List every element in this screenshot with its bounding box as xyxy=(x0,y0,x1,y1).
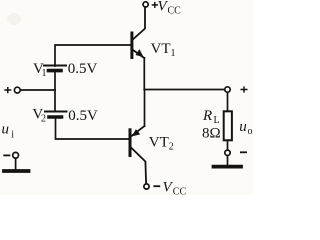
svg-text:V2: V2 xyxy=(32,107,46,125)
svg-text:u: u xyxy=(2,122,10,138)
output plus sign xyxy=(241,86,248,92)
transistor VT2 collector lead xyxy=(131,148,146,184)
svg-text:VT2: VT2 xyxy=(149,135,174,153)
terminal circle output plus xyxy=(225,87,230,92)
wire input minus terminal to ground xyxy=(15,158,17,169)
resistor RL body xyxy=(224,111,232,140)
svg-text:o: o xyxy=(248,126,253,137)
ground bar at input xyxy=(4,169,29,173)
svg-text:8Ω: 8Ω xyxy=(202,125,221,141)
wire RL top xyxy=(227,93,229,112)
terminal circle +VCC xyxy=(143,2,148,7)
VT1 emitter arrowhead xyxy=(136,49,144,57)
VT2 emitter arrowhead xyxy=(132,129,140,136)
transistor VT2 emitter lead xyxy=(131,126,145,136)
wire top horizontal (V1 top to VT1 base) xyxy=(55,45,131,66)
svg-text:R: R xyxy=(202,108,212,124)
transistor VT1 emitter lead xyxy=(133,50,144,58)
wire RL bottom to output minus terminal xyxy=(227,140,229,150)
terminal circle input minus xyxy=(13,152,19,158)
svg-text:u: u xyxy=(239,119,247,135)
terminal circle input plus xyxy=(14,87,20,93)
ground bar at RL xyxy=(214,165,242,169)
minus sign of -VCC xyxy=(153,185,160,187)
transistor VT1 base bar xyxy=(130,33,133,58)
wire output node to RL terminal xyxy=(144,89,224,91)
battery V1 long plate xyxy=(44,65,66,67)
transistor VT2 base bar xyxy=(129,130,132,156)
input plus sign xyxy=(4,87,11,93)
svg-text:0.5V: 0.5V xyxy=(68,108,98,124)
wire input plus terminal to battery midpoint xyxy=(21,89,55,91)
wire V1 to V2 xyxy=(54,71,56,111)
svg-text:VT1: VT1 xyxy=(151,41,176,59)
wire VT1 emitter down to output node xyxy=(143,58,145,90)
input minus sign xyxy=(3,154,10,156)
plus sign of +VCC xyxy=(152,2,158,8)
terminal circle output minus xyxy=(225,150,230,155)
battery V2 short plate xyxy=(49,115,62,119)
svg-text:0.5V: 0.5V xyxy=(68,61,98,77)
svg-text:i: i xyxy=(11,130,14,141)
battery V2 long plate xyxy=(45,111,67,113)
svg-text:CC: CC xyxy=(173,187,187,195)
transistor VT1 collector lead xyxy=(133,8,145,40)
output minus sign xyxy=(240,151,247,153)
battery V1 short plate xyxy=(49,69,62,73)
terminal circle -VCC xyxy=(144,184,149,189)
wire output minus terminal to ground xyxy=(227,156,229,165)
svg-text:CC: CC xyxy=(168,6,182,17)
wire output node down to VT2 emitter xyxy=(144,90,146,127)
svg-text:V1: V1 xyxy=(33,61,47,79)
wire V2 down and bottom horizontal to VT2 base xyxy=(56,118,129,139)
